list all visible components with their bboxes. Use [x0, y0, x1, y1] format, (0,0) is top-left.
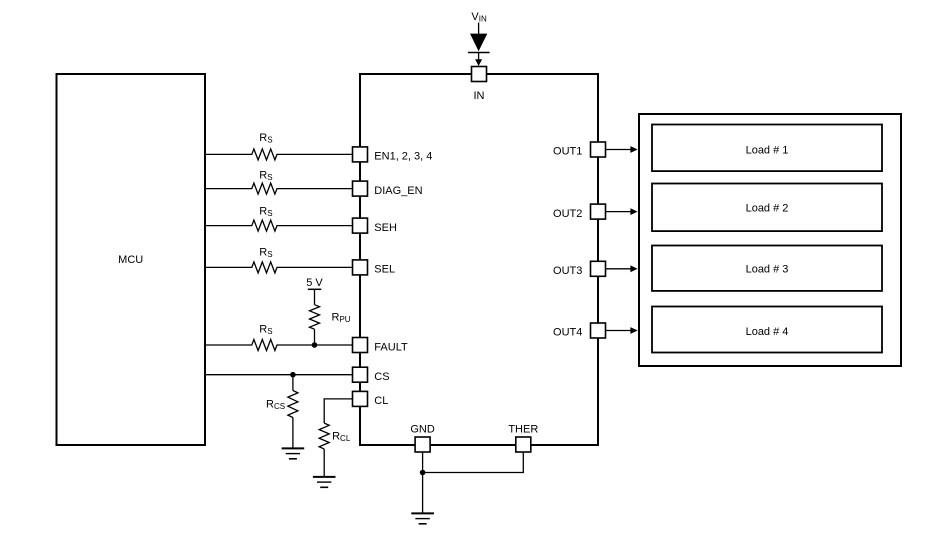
svg-text:OUT1: OUT1 [553, 146, 582, 158]
svg-text:EN1, 2, 3, 4: EN1, 2, 3, 4 [374, 151, 432, 163]
svg-text:THER: THER [508, 423, 538, 435]
svg-text:5 V: 5 V [306, 277, 323, 289]
svg-text:CS: CS [374, 371, 389, 383]
svg-text:Load # 2: Load # 2 [746, 203, 789, 215]
svg-text:SEL: SEL [374, 264, 395, 276]
svg-text:OUT4: OUT4 [553, 327, 582, 339]
svg-text:MCU: MCU [118, 254, 143, 266]
svg-text:Load # 4: Load # 4 [746, 326, 789, 338]
svg-text:Load # 1: Load # 1 [746, 144, 789, 156]
svg-text:FAULT: FAULT [374, 341, 408, 353]
svg-text:Load # 3: Load # 3 [746, 264, 789, 276]
svg-text:GND: GND [410, 423, 435, 435]
svg-text:OUT2: OUT2 [553, 208, 582, 220]
svg-text:IN: IN [474, 90, 485, 102]
svg-text:SEH: SEH [374, 222, 397, 234]
svg-text:OUT3: OUT3 [553, 265, 582, 277]
svg-text:CL: CL [374, 395, 388, 407]
svg-text:DIAG_EN: DIAG_EN [374, 185, 422, 197]
